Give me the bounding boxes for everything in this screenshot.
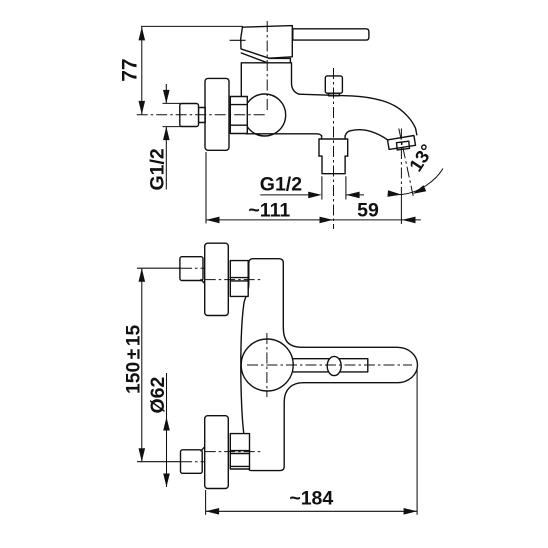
top hex nut bbox=[230, 261, 248, 297]
top connector box bbox=[180, 257, 203, 281]
lever screw ellipse bbox=[327, 356, 341, 375]
spout top edge curving to nose bbox=[299, 94, 417, 135]
svg-text:150±15: 150±15 bbox=[124, 325, 145, 394]
head cap of cartridge bbox=[241, 26, 293, 59]
centerline: bottom eccentric axis bbox=[137, 461, 181, 463]
centerline: aerator vertical reference bbox=[400, 129, 402, 199]
centerline: top faucet inlet axis bbox=[205, 279, 262, 281]
lever rectangle front view bbox=[290, 359, 368, 372]
dim 77 line bbox=[141, 26, 143, 114]
bottom connector box bbox=[181, 450, 203, 474]
eccentric wall connector bbox=[199, 108, 206, 123]
svg-text:~111: ~111 bbox=[248, 199, 290, 221]
spout bottom edge right of outlet to nose bbox=[345, 130, 387, 140]
spout bottom edge left of outlet bbox=[246, 134, 321, 136]
dim 150+-15 line bbox=[141, 268, 143, 462]
cartridge circle front view bbox=[241, 339, 293, 391]
svg-text:G1/2: G1/2 bbox=[260, 174, 302, 196]
shower outlet upper block bbox=[319, 139, 348, 156]
wall escutcheon flange bbox=[205, 78, 229, 150]
top eccentric connector bevel bbox=[201, 280, 205, 284]
shower outlet collar bbox=[322, 136, 346, 139]
aerator at spout nose bbox=[388, 136, 416, 150]
dim G1/2 left leaders bbox=[165, 84, 167, 103]
svg-text:Ø62: Ø62 bbox=[147, 376, 169, 413]
dim ~111/59 extension line left bbox=[205, 152, 207, 223]
svg-text:59: 59 bbox=[357, 199, 379, 221]
dim ~184 line bbox=[206, 510, 418, 512]
centerline: circle vertical bbox=[266, 333, 268, 397]
centerline: bottom faucet inlet axis bbox=[205, 451, 262, 453]
dim G1/2 mid extension lines bbox=[321, 176, 323, 199]
dim 77 extension line bbox=[141, 25, 243, 27]
centerline: body vertical bbox=[266, 21, 268, 112]
cartridge ring skirt bbox=[241, 53, 290, 63]
diverter knob stem bbox=[328, 93, 339, 96]
top escutcheon flange bbox=[205, 243, 229, 315]
bottom escutcheon flange bbox=[205, 416, 229, 489]
svg-text:77: 77 bbox=[119, 58, 142, 81]
diverter knob bbox=[325, 76, 342, 93]
pivot tick on head bbox=[230, 39, 246, 41]
body block bbox=[241, 63, 299, 97]
centerline: faucet axis horizontal bbox=[137, 114, 266, 116]
cartridge ball circle bbox=[244, 94, 286, 136]
wall union hex nut bbox=[230, 97, 247, 134]
dim 13deg arc bbox=[388, 169, 443, 195]
centerline: 13 deg tilted reference bbox=[399, 129, 413, 197]
svg-text:~184: ~184 bbox=[289, 488, 333, 510]
bottom eccentric connector bevel bbox=[201, 447, 205, 451]
lever handle bar bbox=[293, 29, 369, 40]
svg-text:G1/2: G1/2 bbox=[147, 148, 169, 190]
dim ~184 extension lines bbox=[205, 490, 207, 515]
dim G1/2 left extension lines bbox=[163, 102, 182, 104]
aerator inner notch bbox=[397, 141, 410, 150]
centerline: top eccentric axis bbox=[137, 267, 181, 269]
bottom hex nut bbox=[230, 434, 249, 469]
faucet body front outline bbox=[241, 259, 418, 471]
dim dia62 leader line bbox=[166, 373, 168, 487]
shower outlet lower block G1/2 thread bbox=[319, 156, 348, 174]
dim line ~111 / 59 bbox=[206, 219, 421, 221]
centerline: outlet/knob vertical bbox=[333, 68, 335, 229]
centerline: circle horizontal bbox=[247, 364, 412, 366]
